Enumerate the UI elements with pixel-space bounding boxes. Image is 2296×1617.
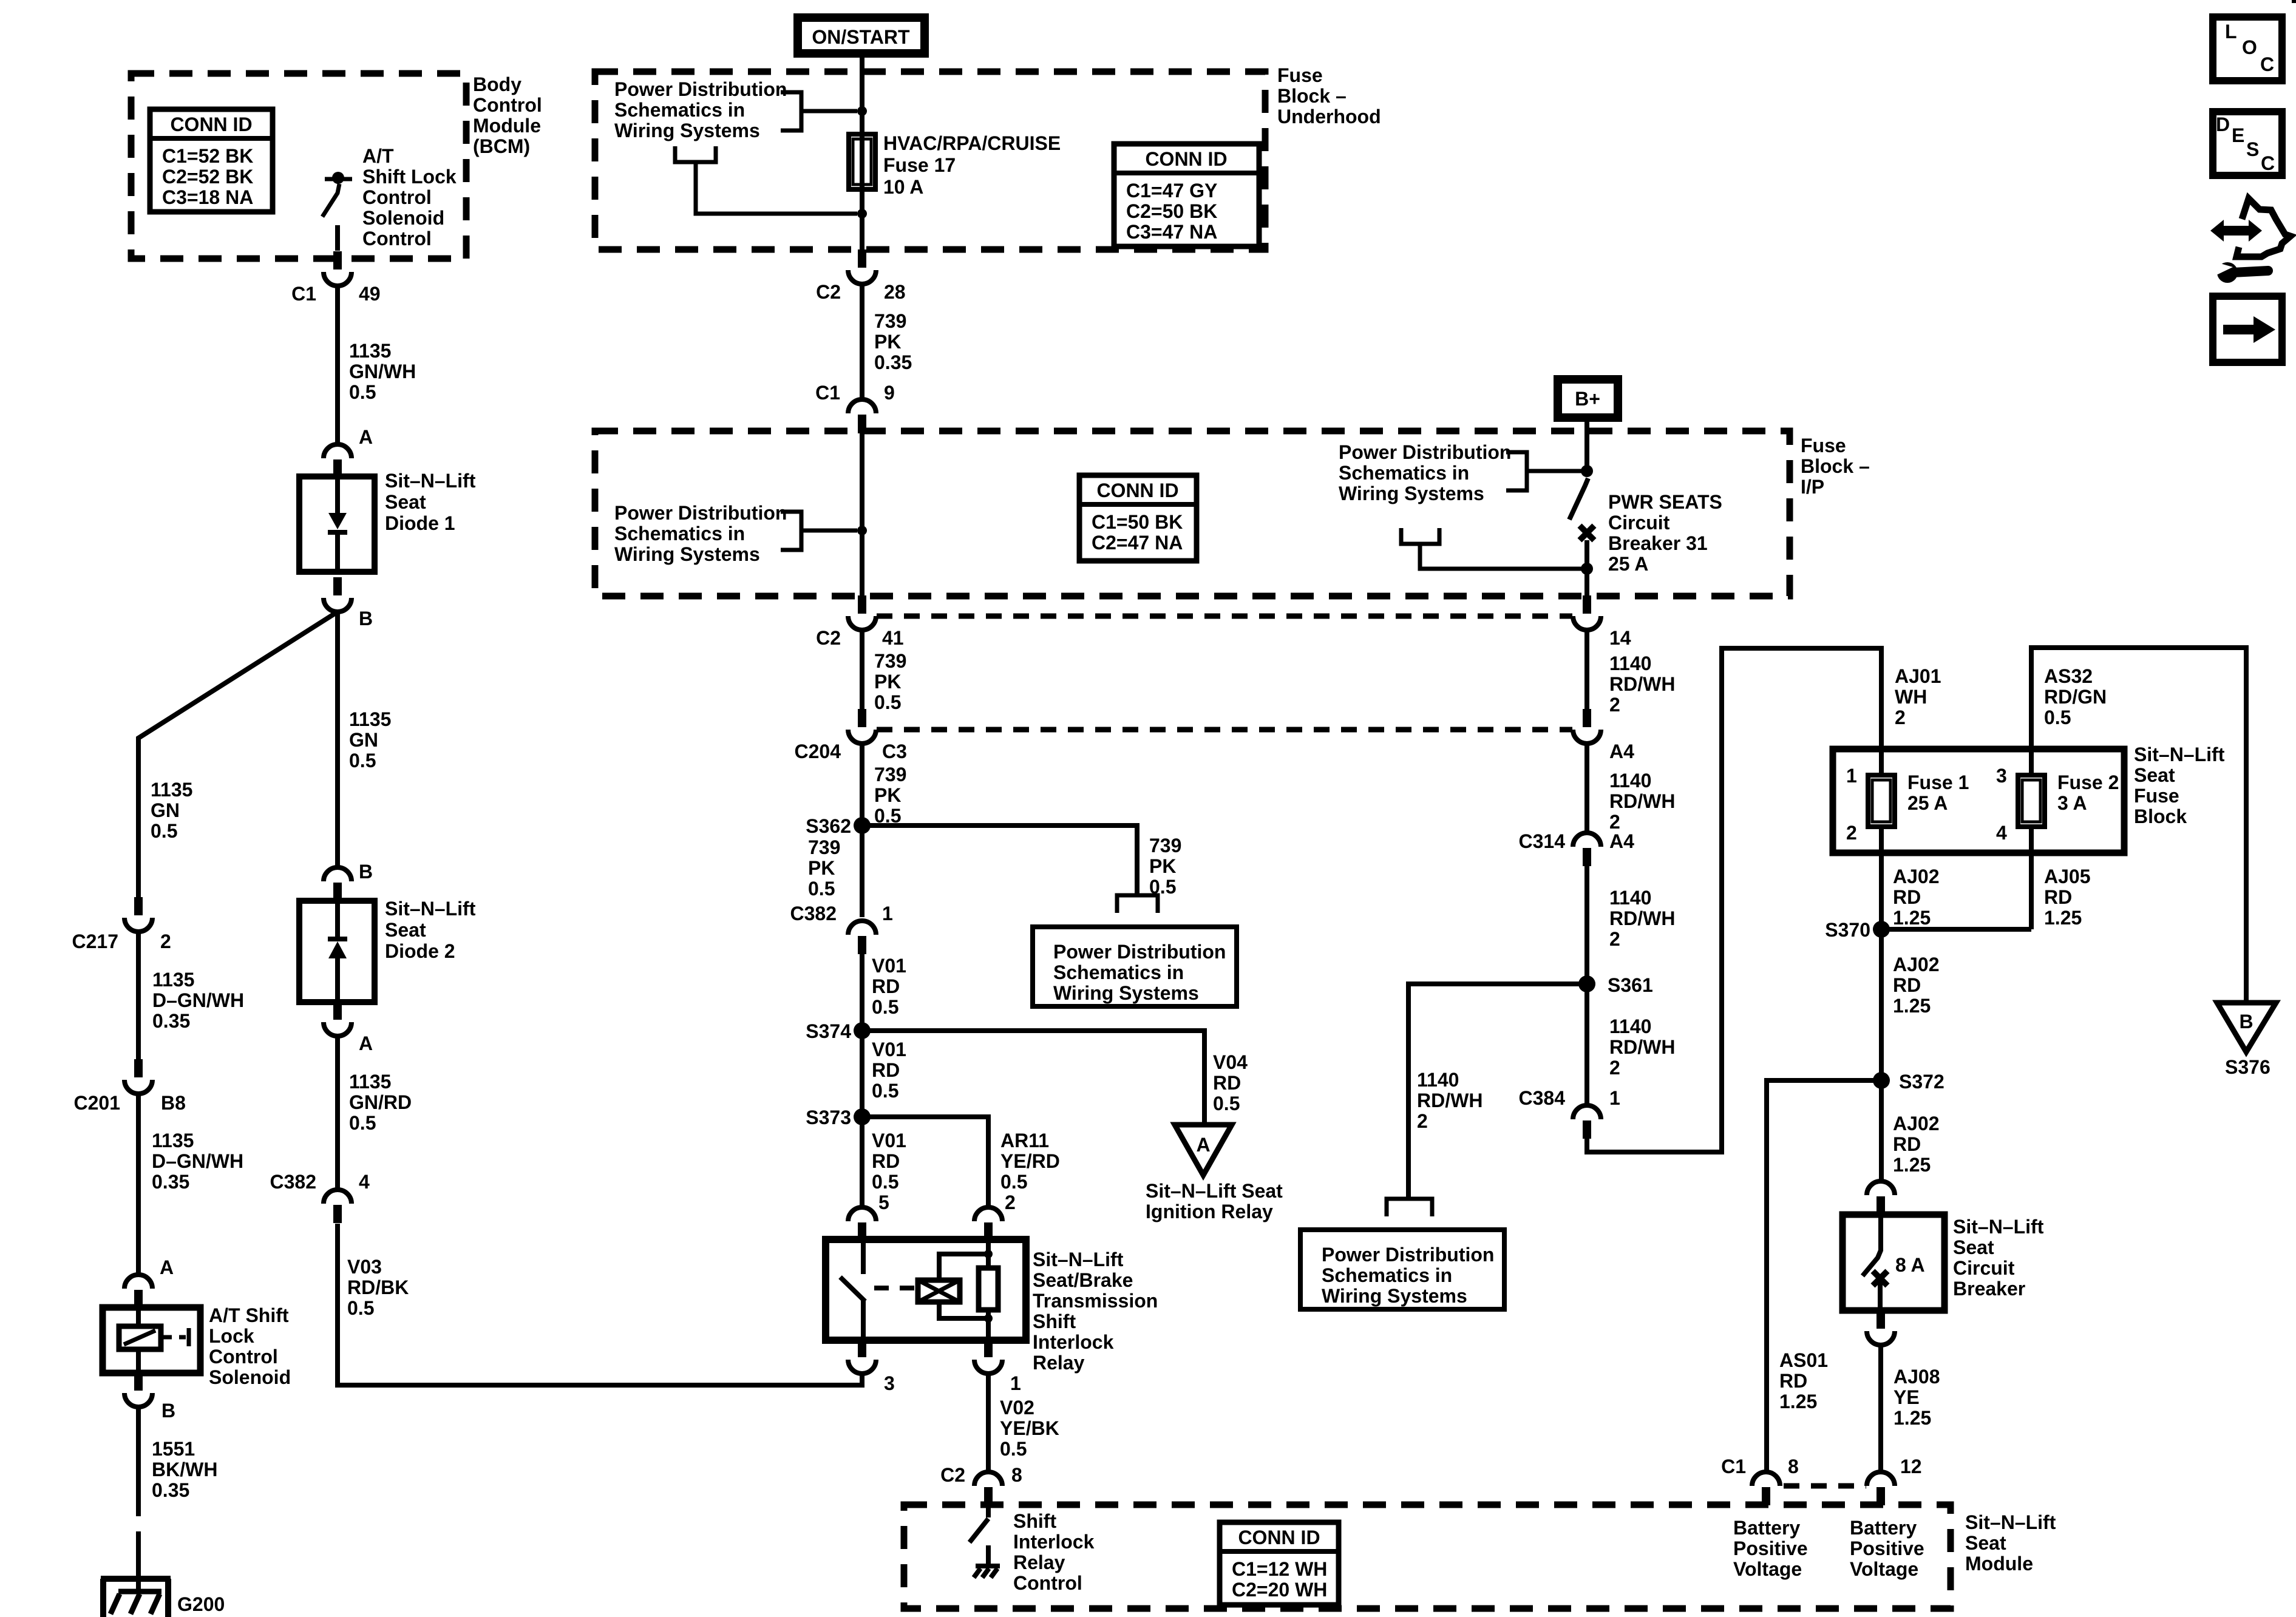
svg-text:9: 9 — [884, 382, 895, 404]
reference bracket (S361 branch) — [1387, 1199, 1432, 1216]
svg-text:1140: 1140 — [1609, 770, 1651, 792]
svg-text:C382: C382 — [790, 903, 837, 924]
C1 label (battery) — [1721, 1456, 1746, 1477]
svg-text:Control: Control — [362, 186, 432, 208]
svg-text:C1: C1 — [291, 283, 316, 305]
C2 label (28) — [816, 281, 841, 303]
svg-text:RD/WH: RD/WH — [1609, 673, 1675, 695]
S374 label — [806, 1020, 851, 1042]
ON/START power feed box — [798, 18, 925, 53]
relay resistor — [979, 1239, 998, 1340]
svg-text:B: B — [359, 608, 373, 629]
svg-text:Power Distribution: Power Distribution — [614, 78, 787, 100]
wire label V01 RD 0.5 (c) — [872, 1130, 906, 1193]
svg-text:AJ05: AJ05 — [2044, 866, 2091, 887]
connector C384 pin 1 — [1573, 1105, 1601, 1139]
wire AS32 RD/GN — [2031, 648, 2246, 1003]
Fuse Block - Underhood dashed box — [595, 72, 1265, 249]
svg-text:4: 4 — [359, 1171, 370, 1193]
pin 28 label — [884, 281, 906, 303]
wire label AJ05 RD 1.25 — [2044, 866, 2091, 929]
svg-text:Power Distribution: Power Distribution — [1339, 441, 1511, 463]
svg-text:2: 2 — [1609, 1057, 1620, 1079]
ground G200 — [101, 1579, 171, 1617]
svg-text:0.35: 0.35 — [874, 351, 912, 373]
wire label 1135 GN/WH 0.5 — [349, 340, 416, 403]
connector C201 pin B8 — [124, 1059, 152, 1094]
svg-text:Underhood: Underhood — [1277, 106, 1381, 127]
svg-text:Sit–N–Lift: Sit–N–Lift — [1965, 1511, 2056, 1533]
Sit-N-Lift Seat Fuse Block label — [2134, 744, 2225, 827]
junction below Fuse 17 — [857, 209, 867, 219]
wire through I/P block — [860, 433, 864, 596]
svg-text:YE/RD: YE/RD — [1000, 1150, 1060, 1172]
branch wire from S362 — [862, 825, 1137, 893]
S362 label — [806, 815, 851, 837]
connector C1 pin 8 (battery positive) — [1752, 1472, 1780, 1505]
svg-text:V01: V01 — [872, 1039, 906, 1060]
svg-text:3: 3 — [884, 1372, 895, 1394]
page corner mark — [2292, 0, 2296, 3]
A/T Shift Lock Control Solenoid — [103, 1307, 200, 1373]
shift interlock relay control switch + ground (module) — [970, 1505, 1000, 1578]
svg-text:Shift: Shift — [1033, 1310, 1076, 1332]
svg-text:A/T Shift: A/T Shift — [209, 1304, 289, 1326]
relay junction (coil top) — [984, 1250, 993, 1258]
svg-text:C314: C314 — [1519, 830, 1566, 852]
S372 label — [1899, 1071, 1944, 1093]
svg-text:C1=50 BK: C1=50 BK — [1092, 511, 1183, 533]
connector C204 pin C3 — [848, 709, 876, 744]
splice S372 — [1873, 1072, 1890, 1089]
fuse block pin 4 label — [1996, 822, 2007, 844]
svg-text:RD/GN: RD/GN — [2044, 686, 2107, 708]
svg-text:Positive: Positive — [1733, 1537, 1808, 1559]
svg-text:PWR SEATS: PWR SEATS — [1608, 491, 1722, 513]
wire 739 PK 0.35 — [860, 284, 864, 399]
connector relay pin 1 — [974, 1339, 1002, 1374]
svg-text:YE: YE — [1894, 1386, 1920, 1408]
wire label AJ02 RD 1.25 (a) — [1893, 866, 1940, 929]
svg-text:1.25: 1.25 — [1893, 1154, 1931, 1176]
reference bracket (I/P) — [781, 512, 857, 550]
wire label 1135 GN 0.5 (right) — [349, 708, 391, 771]
svg-text:Sit–N–Lift: Sit–N–Lift — [1953, 1216, 2044, 1238]
svg-text:C1=52 BK: C1=52 BK — [162, 145, 253, 167]
fuse block pin 3 label — [1996, 765, 2007, 787]
svg-text:739: 739 — [1149, 835, 1181, 856]
pin A label (solenoid) — [160, 1256, 174, 1278]
svg-text:S361: S361 — [1608, 974, 1653, 996]
svg-text:Sit–N–Lift: Sit–N–Lift — [385, 898, 476, 920]
svg-text:1.25: 1.25 — [2044, 907, 2082, 929]
svg-text:B8: B8 — [161, 1092, 186, 1114]
svg-text:A4: A4 — [1609, 741, 1634, 762]
relay coil — [918, 1254, 988, 1318]
junction above Fuse 17 — [857, 106, 867, 116]
svg-text:B+: B+ — [1575, 388, 1600, 410]
svg-text:AJ01: AJ01 — [1895, 665, 1941, 687]
in-harness dotted line C2 — [877, 614, 1572, 619]
wire 1551 BK/WH — [136, 1407, 141, 1487]
svg-text:8 A: 8 A — [1895, 1254, 1925, 1276]
wire V02 YE/BK — [986, 1374, 991, 1472]
C314 label — [1519, 830, 1566, 852]
Sit-N-Lift Seat Module label — [1965, 1511, 2056, 1575]
svg-text:Voltage: Voltage — [1850, 1558, 1918, 1580]
wire 1135 GN diagonal to left branch — [138, 612, 338, 897]
wire label 1135 GN/RD 0.5 — [349, 1071, 412, 1134]
svg-text:Seat: Seat — [1953, 1236, 1994, 1258]
svg-text:C217: C217 — [72, 931, 119, 952]
relay actuation dashed link — [874, 1286, 917, 1290]
8 A label — [1895, 1254, 1925, 1276]
Sit-N-Lift Seat Fuse Block box — [1833, 749, 2124, 853]
dashed wire to G200 — [136, 1487, 141, 1553]
svg-text:Power Distribution: Power Distribution — [1322, 1244, 1494, 1266]
svg-text:Circuit: Circuit — [1608, 512, 1670, 534]
wire 1135 GN (right) — [335, 612, 340, 867]
wire label 1135 GN 0.5 (left) — [151, 779, 192, 842]
svg-text:Schematics in: Schematics in — [614, 99, 745, 121]
svg-text:Fuse 1: Fuse 1 — [1907, 771, 1969, 793]
connector C382 pin 1 — [848, 921, 876, 954]
DESC icon box — [2213, 112, 2282, 175]
Shift Interlock Relay Control label — [1013, 1510, 1095, 1594]
pin 2 label — [1005, 1192, 1016, 1213]
wire label AJ02 RD 1.25 (b) — [1893, 954, 1940, 1017]
wire AJ02 RD (fuse 1 out) — [1879, 827, 1884, 1181]
svg-text:C2: C2 — [816, 627, 841, 649]
svg-text:Seat: Seat — [385, 919, 426, 941]
svg-text:C: C — [2260, 53, 2274, 75]
svg-text:Fuse: Fuse — [1277, 64, 1323, 86]
reference bracket (underhood lower) — [675, 146, 857, 214]
svg-text:28: 28 — [884, 281, 906, 303]
svg-text:Schematics in: Schematics in — [1053, 961, 1184, 983]
svg-text:ON/START: ON/START — [812, 26, 910, 48]
Fuse 2 label — [2057, 771, 2119, 814]
svg-text:0.5: 0.5 — [349, 1112, 376, 1134]
pin 1 label (C384) — [1609, 1087, 1620, 1109]
svg-text:2: 2 — [1846, 822, 1857, 844]
wire C384 to fuse block feed — [1587, 648, 1881, 1152]
wire 1135 GN/WH — [335, 286, 340, 444]
svg-text:Schematics in: Schematics in — [614, 523, 745, 544]
pin 8 label (battery) — [1788, 1456, 1799, 1477]
wire AJ05 RD (fuse 2 out) — [2029, 827, 2034, 929]
connector pin B (Diode 1) — [324, 577, 352, 612]
connector relay pin 2 — [974, 1207, 1002, 1241]
connector pin B (solenoid) — [124, 1372, 152, 1407]
svg-text:C3: C3 — [882, 741, 907, 762]
svg-text:0.5: 0.5 — [808, 878, 835, 900]
svg-text:2: 2 — [160, 931, 171, 952]
svg-text:0.5: 0.5 — [872, 996, 898, 1018]
svg-text:RD/WH: RD/WH — [1609, 790, 1675, 812]
svg-text:1140: 1140 — [1609, 1015, 1651, 1037]
svg-text:8: 8 — [1788, 1456, 1799, 1477]
wire label 739 PK 0.5 (c) — [808, 836, 840, 900]
svg-text:Fuse: Fuse — [1801, 435, 1846, 456]
reference bracket (B+ lower) — [1401, 528, 1582, 569]
forward arrow icon box — [2213, 296, 2282, 362]
svg-text:4: 4 — [1996, 822, 2007, 844]
Battery Positive Voltage label (pin 12) — [1850, 1517, 1924, 1580]
svg-text:Power Distribution: Power Distribution — [1053, 941, 1226, 963]
connector C217 pin 2 — [124, 897, 152, 932]
C1 label (9) — [815, 382, 840, 404]
svg-text:BK/WH: BK/WH — [152, 1459, 217, 1480]
reference bracket (underhood upper) — [781, 92, 857, 131]
pin C3 label — [882, 741, 907, 762]
Power Distribution reference (B+) — [1339, 441, 1511, 504]
svg-text:RD: RD — [1779, 1370, 1807, 1392]
svg-text:Seat: Seat — [2134, 764, 2175, 786]
connector pin A (Diode 1) — [324, 444, 352, 478]
svg-text:Wiring Systems: Wiring Systems — [614, 120, 760, 141]
svg-text:Interlock: Interlock — [1013, 1531, 1095, 1553]
splice S374 — [854, 1022, 871, 1039]
connector pin A (Diode 2) — [324, 1002, 352, 1036]
svg-text:Breaker: Breaker — [1953, 1278, 2025, 1300]
wire label V03 RD/BK 0.5 — [347, 1256, 409, 1319]
svg-text:PK: PK — [1149, 855, 1176, 877]
C204 label — [795, 741, 841, 762]
Diode 1 label — [385, 470, 476, 534]
Power Distribution reference (underhood) — [614, 78, 787, 141]
svg-text:A: A — [160, 1256, 174, 1278]
svg-text:1135: 1135 — [349, 340, 391, 362]
svg-text:Voltage: Voltage — [1733, 1558, 1802, 1580]
connector C382 pin 4 — [324, 1190, 352, 1223]
wire V03 RD/BK to relay pin 3 — [338, 1224, 862, 1385]
svg-text:S372: S372 — [1899, 1071, 1944, 1093]
svg-text:I/P: I/P — [1801, 476, 1824, 498]
svg-text:S: S — [2246, 138, 2259, 160]
svg-text:1: 1 — [1010, 1372, 1021, 1394]
svg-text:C2=20 WH: C2=20 WH — [1232, 1579, 1327, 1601]
svg-text:Module: Module — [473, 115, 541, 137]
wire 1135 GN/RD — [335, 1036, 340, 1190]
wire label 1140 RD/WH 2 (a) — [1609, 653, 1675, 716]
svg-text:1140: 1140 — [1609, 887, 1651, 909]
B+ power feed box — [1558, 379, 1618, 418]
svg-text:C1: C1 — [1721, 1456, 1746, 1477]
wire 1140 RD/WH (b) — [1584, 744, 1589, 833]
wire into ground G200 — [136, 1553, 141, 1594]
fuse block pin 2 label — [1846, 822, 1857, 844]
wire label AR11 YE/RD 0.5 — [1000, 1130, 1060, 1193]
pin B label (solenoid) — [161, 1400, 175, 1422]
svg-text:AS32: AS32 — [2044, 665, 2093, 687]
S376 label — [2225, 1056, 2271, 1078]
junction at PWR SEATS breaker (top) — [1581, 465, 1593, 477]
svg-text:1: 1 — [1609, 1087, 1620, 1109]
connector C1 pin 12 (battery positive) — [1867, 1472, 1895, 1505]
Sit-N-Lift Seat Diode 2 — [299, 901, 375, 1002]
pin B label — [359, 608, 373, 629]
svg-text:Solenoid: Solenoid — [209, 1366, 291, 1388]
svg-text:739: 739 — [808, 836, 840, 858]
svg-text:1135: 1135 — [152, 969, 194, 991]
C1 label — [291, 283, 316, 305]
service icon (vehicle with arrows and wrench) — [2210, 198, 2291, 283]
svg-text:S376: S376 — [2225, 1056, 2271, 1078]
svg-text:10 A: 10 A — [883, 176, 923, 198]
BCM label — [473, 73, 542, 157]
svg-text:Battery: Battery — [1733, 1517, 1800, 1539]
pin 3 label — [884, 1372, 895, 1394]
svg-text:RD/WH: RD/WH — [1609, 907, 1675, 929]
svg-text:RD: RD — [2044, 886, 2072, 908]
wire label 1140 RD/WH 2 (c) — [1609, 887, 1675, 950]
svg-text:Schematics in: Schematics in — [1339, 462, 1469, 484]
pin B label (Diode 2) — [359, 861, 373, 883]
svg-text:C1: C1 — [815, 382, 840, 404]
svg-text:25 A: 25 A — [1907, 792, 1948, 814]
svg-text:RD: RD — [1893, 974, 1921, 996]
svg-text:2: 2 — [1417, 1110, 1428, 1132]
svg-text:S370: S370 — [1825, 919, 1870, 941]
connector relay pin 5 — [848, 1207, 876, 1241]
branch wire from S373 to relay pin 2 — [862, 1117, 988, 1207]
svg-text:Sit–N–Lift: Sit–N–Lift — [1033, 1249, 1124, 1270]
PWR SEATS Circuit Breaker 31 label — [1608, 491, 1722, 575]
CONN ID table (I/P) — [1079, 475, 1197, 561]
svg-text:Breaker 31: Breaker 31 — [1608, 532, 1708, 554]
wire AJ08 YE — [1878, 1345, 1883, 1472]
svg-text:0.5: 0.5 — [349, 381, 376, 403]
connector C1 pin 49 (BCM) — [324, 251, 352, 286]
svg-text:Seat/Brake: Seat/Brake — [1033, 1269, 1133, 1291]
svg-text:D–GN/WH: D–GN/WH — [152, 989, 244, 1011]
S373 label — [806, 1107, 851, 1128]
Power Distribution reference box (S361 branch) — [1300, 1230, 1504, 1309]
pin A4 label (b) — [1609, 830, 1634, 852]
svg-text:C3=18 NA: C3=18 NA — [162, 186, 253, 208]
svg-text:0.35: 0.35 — [152, 1010, 190, 1032]
C2 label (41) — [816, 627, 841, 649]
svg-text:C2=52 BK: C2=52 BK — [162, 166, 253, 188]
svg-text:GN: GN — [151, 799, 180, 821]
svg-text:Relay: Relay — [1013, 1551, 1065, 1573]
pin 14 label — [1609, 627, 1631, 649]
splice S361 — [1578, 975, 1595, 992]
svg-text:0.5: 0.5 — [1000, 1171, 1027, 1193]
connector pin B (Diode 2) — [324, 867, 352, 901]
svg-text:1135: 1135 — [349, 708, 391, 730]
svg-text:0.5: 0.5 — [349, 750, 376, 771]
Sit-N-Lift Seat Diode 1 — [299, 476, 375, 572]
pin 9 label — [884, 382, 895, 404]
svg-text:V03: V03 — [347, 1256, 382, 1278]
svg-text:Diode 2: Diode 2 — [385, 940, 455, 962]
Fuse 17 label — [883, 132, 1061, 198]
connector pin A (solenoid) — [124, 1275, 152, 1308]
svg-text:C382: C382 — [270, 1171, 317, 1193]
svg-text:Body: Body — [473, 73, 521, 95]
Sit-N-Lift Seat Module dashed box — [904, 1505, 1951, 1609]
wire label AS01 RD 1.25 — [1779, 1349, 1828, 1412]
fuse block pin 1 label — [1846, 765, 1857, 787]
wire label V01 RD 0.5 (b) — [872, 1039, 906, 1102]
pin 4 label — [359, 1171, 370, 1193]
pin A label (Diode 2) — [359, 1032, 373, 1054]
wire 739 PK 0.5 (a) — [860, 630, 864, 709]
wire label 739 PK 0.5 (b) — [874, 764, 906, 827]
wire to pin 14 connector — [1584, 569, 1589, 596]
splice S370 — [1873, 921, 1890, 938]
svg-text:Interlock: Interlock — [1033, 1331, 1114, 1353]
wire label 1135 D-GN/WH 0.35 — [152, 969, 244, 1032]
svg-text:GN: GN — [349, 729, 378, 751]
svg-text:14: 14 — [1609, 627, 1631, 649]
svg-text:AJ08: AJ08 — [1894, 1366, 1940, 1388]
CONN ID table (module) — [1220, 1522, 1339, 1605]
svg-text:Control: Control — [473, 94, 542, 116]
svg-text:V02: V02 — [1000, 1397, 1034, 1419]
C217 label — [72, 931, 119, 952]
wire label V01 RD 0.5 (a) — [872, 955, 906, 1018]
svg-text:C2=47 NA: C2=47 NA — [1092, 532, 1183, 554]
svg-text:A4: A4 — [1609, 830, 1634, 852]
Sit-N-Lift Seat Circuit Breaker 8A — [1843, 1215, 1944, 1310]
svg-text:AS01: AS01 — [1779, 1349, 1828, 1371]
connector (breaker in) — [1867, 1181, 1895, 1215]
svg-text:YE/BK: YE/BK — [1000, 1417, 1059, 1439]
junction in I/P block — [857, 526, 867, 535]
svg-text:C1=47 GY: C1=47 GY — [1126, 180, 1217, 202]
svg-text:RD/WH: RD/WH — [1609, 1036, 1675, 1058]
pin A label — [359, 426, 373, 448]
pin 1 label — [1010, 1372, 1021, 1394]
svg-text:Wiring Systems: Wiring Systems — [614, 543, 760, 565]
LOC icon box — [2213, 17, 2282, 81]
pin B8 label — [161, 1092, 186, 1114]
svg-text:Shift: Shift — [1013, 1510, 1056, 1532]
svg-text:B: B — [2239, 1011, 2253, 1032]
connector relay pin 3 — [848, 1339, 876, 1374]
svg-text:A: A — [359, 426, 373, 448]
svg-text:AR11: AR11 — [1000, 1130, 1049, 1151]
A/T Shift Lock Control Solenoid Control label — [362, 145, 457, 249]
svg-text:V01: V01 — [872, 955, 906, 977]
svg-text:0.5: 0.5 — [1213, 1093, 1240, 1114]
svg-text:1140: 1140 — [1417, 1069, 1459, 1091]
svg-text:0.5: 0.5 — [151, 820, 177, 842]
svg-text:C384: C384 — [1519, 1087, 1566, 1109]
svg-text:Sit–N–Lift: Sit–N–Lift — [385, 470, 476, 492]
svg-text:12: 12 — [1900, 1456, 1922, 1477]
wire to C2 pin 28 — [860, 214, 864, 249]
connector C2 pin 41 — [848, 595, 876, 630]
svg-text:2: 2 — [1609, 694, 1620, 716]
in-harness dotted line C1 (module) — [1784, 1483, 1866, 1489]
svg-text:CONN ID: CONN ID — [1145, 148, 1227, 170]
svg-text:739: 739 — [874, 650, 906, 672]
svg-text:Positive: Positive — [1850, 1537, 1924, 1559]
svg-text:C3=47 NA: C3=47 NA — [1126, 221, 1217, 243]
branch wire from S374 to ignition relay ref — [862, 1031, 1204, 1125]
wire label V02 YE/BK 0.5 — [1000, 1397, 1059, 1460]
svg-text:GN/RD: GN/RD — [349, 1091, 412, 1113]
connector C314 pin A4 — [1573, 833, 1601, 866]
svg-text:Control: Control — [362, 228, 432, 249]
reference bracket (S362 branch) — [1117, 895, 1158, 913]
svg-text:Wiring Systems: Wiring Systems — [1339, 483, 1484, 504]
Battery Positive Voltage label (pin 8) — [1733, 1517, 1808, 1580]
